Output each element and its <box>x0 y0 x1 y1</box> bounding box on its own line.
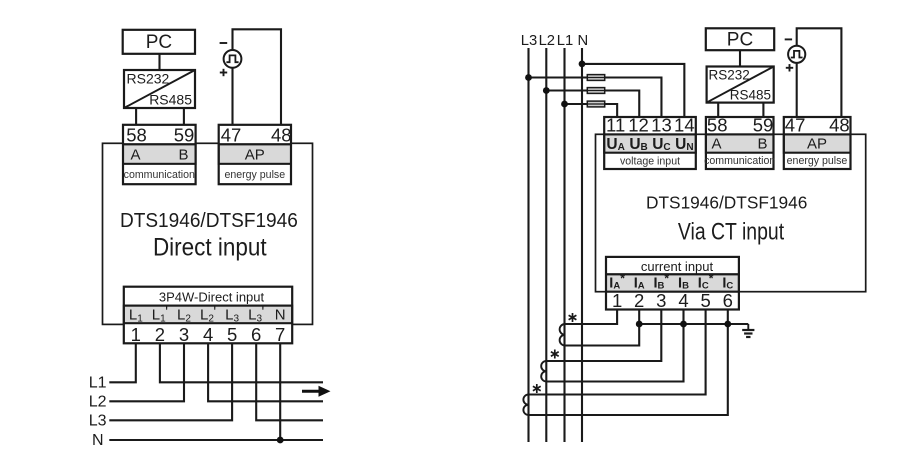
junction: terminal 4 common <box>680 321 687 328</box>
wire pulse - to terminal 48 <box>233 29 282 125</box>
svg-text:58: 58 <box>707 115 728 136</box>
wire L2 supply to terminal 3 <box>109 343 184 401</box>
svg-text:N: N <box>92 432 104 449</box>
junction: L3 tap <box>525 74 532 81</box>
junction: N tap <box>579 61 586 68</box>
svg-text:47: 47 <box>785 115 806 136</box>
svg-text:RS232: RS232 <box>127 71 170 87</box>
terminal block: communication (58/59 A/B) left <box>123 124 196 184</box>
wire L1 phase bus <box>563 48 565 442</box>
terminal block: communication (58/59 A/B) right <box>704 115 775 170</box>
wire terminal 2 to CT1 return <box>565 310 640 346</box>
svg-text:5: 5 <box>700 290 710 311</box>
wire pulse + to terminal 47 <box>231 68 233 125</box>
svg-text:2: 2 <box>634 290 644 311</box>
polarity mark CT T1 <box>569 313 577 322</box>
wire terminal 2 to L1 out <box>160 343 323 382</box>
terminal block: energy pulse (47/48 AP) left <box>219 124 292 184</box>
svg-text:DTS1946/DTSF1946: DTS1946/DTSF1946 <box>646 193 807 213</box>
svg-text:RS485: RS485 <box>730 88 771 103</box>
wire terminal 3 to CT2 dotted end <box>546 310 661 362</box>
pulse source B1 (left energy pulse counter) <box>220 43 242 76</box>
svg-text:communication: communication <box>124 169 195 181</box>
svg-text:B: B <box>178 147 188 164</box>
CT T1 (phase L1) <box>560 324 565 346</box>
svg-text:12: 12 <box>628 115 649 136</box>
svg-text:N: N <box>577 33 588 49</box>
svg-text:47: 47 <box>221 124 242 145</box>
svg-text:3: 3 <box>179 324 189 345</box>
wire common return to earth <box>639 323 748 325</box>
svg-text:4: 4 <box>678 290 688 311</box>
load direction arrow <box>302 386 331 397</box>
CT T3 (phase L3) <box>523 395 528 416</box>
terminal block: 3P4W-Direct input (pins 1-7) <box>124 287 292 345</box>
terminal block: current input (pins 1-6) <box>606 257 739 311</box>
junction: terminal 6 common <box>724 321 731 328</box>
CT T2 (phase L2) <box>541 361 546 382</box>
pulse source B2 (right energy pulse counter) <box>785 39 806 71</box>
svg-text:14: 14 <box>674 115 695 136</box>
svg-text:L1: L1 <box>557 33 573 49</box>
wire terminal 6 to CT3 return <box>529 310 728 416</box>
svg-text:L1: L1 <box>89 375 107 392</box>
svg-text:6: 6 <box>723 290 733 311</box>
wire L2 phase bus <box>545 48 547 442</box>
svg-text:4: 4 <box>203 324 213 345</box>
svg-text:1: 1 <box>612 290 622 311</box>
wire N tap to terminal 14 <box>582 64 684 117</box>
svg-text:59: 59 <box>753 115 774 136</box>
terminal block: energy pulse (47/48 AP) right <box>784 115 851 170</box>
wire RS485-A to terminal 58 <box>135 108 137 125</box>
meter M2 outline (Via CT input) <box>596 134 866 291</box>
wire L1 supply to terminal 1 <box>109 343 136 382</box>
wire pulse - to terminal 48 (right) <box>797 28 842 117</box>
svg-text:energy pulse: energy pulse <box>224 169 285 181</box>
wire RS485-B to terminal 59 <box>183 108 185 125</box>
svg-text:3P4W-Direct input: 3P4W-Direct input <box>159 289 265 304</box>
wire L1 tap to terminal 11 <box>565 104 618 117</box>
svg-text:L2: L2 <box>89 394 107 411</box>
wire terminal 5 to CT3 dotted end <box>529 310 706 395</box>
svg-text:DTS1946/DTSF1946: DTS1946/DTSF1946 <box>120 209 298 232</box>
polarity mark CT T2 <box>551 350 559 359</box>
junction: terminal 2 common <box>636 321 643 328</box>
svg-text:energy pulse: energy pulse <box>787 155 848 167</box>
svg-text:1: 1 <box>131 324 141 345</box>
wire pulse + to terminal 47 (right) <box>796 63 798 117</box>
PC box U4 (right) <box>706 28 774 50</box>
wire L3 supply to terminal 5 <box>109 343 232 420</box>
svg-text:3: 3 <box>656 290 666 311</box>
svg-text:13: 13 <box>651 115 672 136</box>
junction: L1 tap <box>561 101 568 108</box>
wire PC to RS converter (left) <box>158 54 160 70</box>
svg-text:B: B <box>757 135 767 152</box>
wire terminal 7 to N <box>279 343 281 440</box>
wire L3 phase bus <box>527 48 529 442</box>
svg-text:48: 48 <box>271 124 292 145</box>
svg-text:L2: L2 <box>539 33 555 49</box>
wire terminal 1 to CT1 dotted end <box>565 310 618 325</box>
svg-text:Direct input: Direct input <box>153 233 267 261</box>
svg-text:A: A <box>130 147 140 164</box>
svg-text:6: 6 <box>251 324 261 345</box>
terminal block: voltage input (11-14 UA UB UC UN) <box>604 115 696 170</box>
svg-text:5: 5 <box>227 324 237 345</box>
polarity mark CT T3 <box>533 384 541 393</box>
svg-text:voltage input: voltage input <box>620 156 680 168</box>
wire terminal 4 to L2 out <box>208 343 323 401</box>
svg-text:58: 58 <box>126 124 147 145</box>
wire L3 tap to terminal 13 <box>529 78 662 118</box>
svg-text:PC: PC <box>727 30 753 51</box>
svg-text:7: 7 <box>275 324 285 345</box>
svg-text:Via CT input: Via CT input <box>678 218 784 245</box>
svg-text:N: N <box>275 306 286 323</box>
svg-text:PC: PC <box>146 32 172 53</box>
wire RS485-B to terminal 59 (right) <box>762 103 764 117</box>
svg-text:current input: current input <box>641 259 714 274</box>
svg-text:communication: communication <box>704 155 775 167</box>
svg-text:L3: L3 <box>521 33 537 49</box>
svg-text:RS485: RS485 <box>149 92 192 108</box>
fuse F1 (L1 phase) <box>587 101 604 107</box>
svg-text:2: 2 <box>155 324 165 345</box>
RS232/RS485 converter U3 (left) <box>124 70 195 108</box>
fuse F2 (L2 phase) <box>587 88 604 94</box>
wire L2 tap to terminal 12 <box>546 91 639 118</box>
PC box U2 (left) <box>123 30 195 54</box>
svg-text:59: 59 <box>174 124 195 145</box>
wire RS485-A to terminal 58 (right) <box>717 103 719 117</box>
wire N supply line <box>109 439 323 441</box>
svg-text:AP: AP <box>245 147 265 164</box>
svg-text:AP: AP <box>807 135 827 152</box>
svg-text:A: A <box>711 135 721 152</box>
meter M1 outline (Direct input) <box>103 143 313 324</box>
svg-text:L3: L3 <box>89 413 107 430</box>
RS232/RS485 converter U5 (right) <box>707 67 774 103</box>
wire N bus <box>581 48 583 442</box>
wire terminal 6 to L3 out <box>256 343 323 420</box>
fuse F3 (L3 phase) <box>587 75 604 81</box>
svg-text:11: 11 <box>606 115 625 136</box>
wire terminal 4 to CT2 return <box>546 310 683 382</box>
junction: L2 tap <box>543 87 550 94</box>
junction: terminal 7 on N line <box>277 437 284 444</box>
ground (earth) symbol <box>742 324 754 337</box>
svg-text:48: 48 <box>829 115 850 136</box>
wire PC to RS converter (right) <box>739 50 741 66</box>
svg-text:RS232: RS232 <box>709 68 750 83</box>
